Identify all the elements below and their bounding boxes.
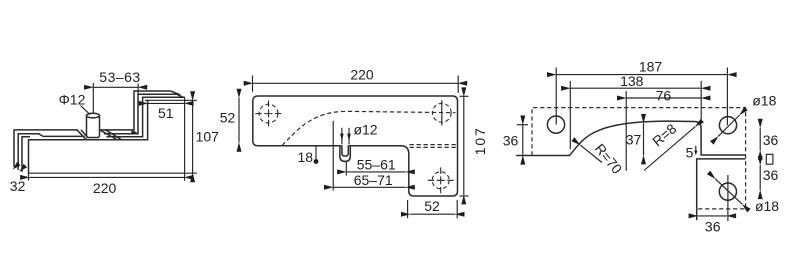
dimension 220 (left view) line: [29, 176, 184, 178]
glass thickness symbol: [766, 154, 773, 164]
middle view: hole circle 2 (top-right): [432, 103, 451, 122]
left view: step vertical v4: [147, 100, 149, 140]
dimension 53-63 left extension: [92, 83, 94, 114]
diameter dim through bottom-right hole: [715, 179, 742, 205]
dimension 107 (middle) line: [463, 97, 465, 196]
svg-text:52: 52: [220, 110, 236, 126]
svg-text:36: 36: [763, 167, 779, 183]
left view: pivot pin cylinder: [87, 116, 100, 138]
left view: upper arm line C: [143, 96, 185, 98]
middle view: hole circle 1 (top-left): [259, 104, 278, 123]
middle view: plate outline: [253, 96, 458, 196]
left view: body right edge (also extension line for 220/51): [184, 98, 186, 181]
hole 2 vertical crosshair: [441, 100, 443, 125]
middle view: pin slot outer: [341, 145, 349, 147]
svg-text:107: 107: [472, 126, 488, 155]
138/76 right extension: [700, 81, 702, 120]
svg-text:138: 138: [620, 73, 644, 89]
R=70 leader: [580, 145, 602, 163]
dimension 36 left line: [522, 125, 524, 156]
left view: lower top cover line L2: [18, 134, 138, 137]
left view: step vertical v2: [137, 94, 139, 134]
svg-text:107: 107: [196, 129, 220, 145]
right view: glass panel dashed outline: [532, 108, 746, 209]
dimension 220 (middle) line: [253, 82, 458, 84]
dimension 53-63 line: [93, 86, 138, 88]
svg-text:65–71: 65–71: [354, 172, 393, 188]
dimension 55-61 line: [346, 171, 405, 173]
svg-text:ø12: ø12: [353, 122, 377, 138]
dimension 52 (middle bottom) line: [410, 213, 455, 215]
svg-text:ø18: ø18: [755, 198, 779, 214]
left view: fold diagonal d4: [81, 130, 88, 137]
svg-text:36: 36: [705, 218, 721, 234]
dimension 32 arrow 1: [13, 162, 21, 170]
left view: left end vertical v7: [21, 137, 23, 172]
left view: fold diagonal d2: [106, 130, 122, 140]
left view: upper arm line B with end bevel: [138, 94, 183, 97]
right view: fitting profile: [517, 121, 745, 155]
svg-text:55–61: 55–61: [357, 157, 396, 173]
svg-text:220: 220: [93, 180, 117, 196]
right view: hole left: [547, 116, 564, 133]
dimension 18 line with dot: [315, 146, 317, 162]
centreline through top-right hole (187 right extension): [726, 68, 728, 126]
left view: fold diagonal d1: [100, 130, 117, 140]
svg-text:51: 51: [158, 105, 174, 121]
36 left top tick: [517, 124, 528, 126]
220 middle right extension: [457, 76, 459, 94]
dimension 138 line: [570, 87, 701, 89]
svg-text:ø18: ø18: [752, 93, 776, 109]
dimension 36 bottom line: [698, 215, 727, 217]
left view: pivot pin top ellipse: [87, 113, 100, 118]
dimension 76 line: [626, 97, 701, 99]
left view: left end vertical v5: [13, 130, 15, 166]
left view: lower top cover line L1: [14, 129, 134, 131]
middle view: hidden lines across leg (upper): [410, 144, 457, 146]
dimension 53-63 right extension: [137, 84, 139, 95]
dimension 220 left extension: [28, 173, 30, 180]
svg-text:36: 36: [763, 132, 779, 148]
svg-text:220: 220: [350, 67, 374, 83]
svg-text:76: 76: [656, 87, 672, 103]
middle view: pin slot inner: [342, 146, 348, 156]
52 bottom right extension: [456, 200, 458, 218]
middle view: hidden lines across leg (lower): [410, 146, 457, 148]
left view: lower body left edge: [28, 140, 30, 173]
dimension 187 line: [556, 74, 727, 76]
middle view: hole circle 3 (in leg): [432, 172, 449, 189]
diameter dim through top-right hole: [718, 115, 739, 136]
55-61 left extension (slot centre): [345, 162, 347, 176]
65-71 left extension: [332, 121, 334, 191]
left view: step arrow mark: [131, 130, 137, 134]
svg-text:5: 5: [686, 145, 694, 161]
svg-text:52: 52: [424, 198, 440, 214]
left view: upper arm bottom line (extends right as extension for 107): [145, 99, 197, 101]
dimension 51 line: [148, 102, 185, 104]
left view: left end vertical v6: [17, 134, 19, 170]
right view: hole bottom-right: [719, 183, 736, 200]
dimension 107 (left view) line: [192, 100, 194, 173]
dimension 36 right-top line: [759, 128, 761, 151]
svg-text:53–63: 53–63: [99, 69, 140, 85]
svg-text:Φ12: Φ12: [59, 92, 86, 108]
left view: lower body front top edge: [29, 139, 148, 141]
dimension 37 line: [643, 123, 645, 155]
diameter 12 arrow line left: [341, 128, 343, 145]
dimension 5 arrow: [695, 146, 697, 152]
centreline below bottom-right hole: [727, 175, 729, 221]
left view: step vertical v3: [142, 97, 144, 137]
right view: second plate step line: [697, 159, 745, 220]
107 middle top extension: [460, 95, 469, 97]
hole 3 crosshair: [428, 167, 454, 193]
left view: lower top cover line L3: [22, 136, 143, 138]
dimension 52 (middle left) line: [238, 98, 240, 143]
left view: body bottom edge (extends right as extension line for 107): [29, 172, 197, 174]
diameter 12 arrow line right: [348, 128, 350, 145]
dimension 65-71 line: [333, 186, 405, 188]
left view: step vertical v1: [133, 91, 135, 130]
svg-text:36: 36: [503, 132, 519, 148]
centreline through left hole (187 left extension): [555, 68, 557, 125]
hole 1 crosshair: [255, 100, 281, 126]
left view: upper arm line A with end bevel: [134, 91, 180, 95]
svg-text:37: 37: [626, 132, 642, 148]
R=8 leader: [644, 127, 695, 171]
76 left extension / pivot centreline: [625, 91, 627, 171]
right view: hole top-right: [719, 117, 736, 134]
middle view: hidden cover curve: [282, 111, 456, 145]
52 bottom left extension: [407, 200, 409, 218]
dimension 36 right-bottom line: [759, 165, 761, 190]
220 middle left extension: [252, 76, 254, 92]
leader for Phi12: [81, 106, 91, 115]
dimension 32 arrow 2: [19, 164, 27, 172]
138 left extension: [569, 81, 571, 149]
svg-text:32: 32: [10, 178, 26, 194]
107 middle bottom extension: [460, 195, 469, 197]
svg-text:18: 18: [298, 149, 314, 165]
left view: fold diagonal d3: [77, 130, 86, 139]
